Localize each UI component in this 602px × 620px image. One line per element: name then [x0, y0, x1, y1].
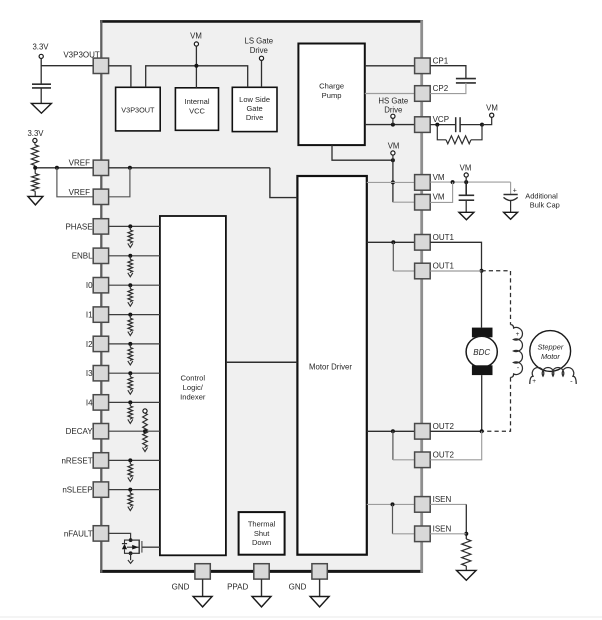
svg-text:BDC: BDC — [473, 348, 490, 357]
wire I1 to control logic — [109, 314, 160, 316]
pin OUT2 (upper) — [415, 422, 455, 439]
VCP external resistor R3 — [437, 125, 482, 144]
svg-text:ISEN: ISEN — [433, 524, 452, 533]
svg-text:I3: I3 — [86, 369, 93, 378]
wire I0 to control logic — [109, 284, 160, 286]
svg-text:Internal: Internal — [184, 97, 209, 106]
pin GND (bottom) — [172, 564, 211, 592]
pin nSLEEP — [62, 482, 108, 497]
svg-text:V3P3OUT: V3P3OUT — [121, 105, 155, 114]
pin OUT2 (lower) — [415, 450, 455, 467]
pin nRESET — [61, 453, 108, 468]
wire BDC motor to OUT2 node — [481, 375, 483, 431]
VCP external capacitor C3 — [430, 117, 484, 132]
wire OUT1 node to BDC motor — [481, 271, 483, 328]
svg-text:Logic/: Logic/ — [183, 383, 204, 392]
flying capacitor C2 between CP1 and CP2 — [430, 66, 476, 94]
wire VM terminal stem — [392, 155, 394, 160]
wire control-logic to motor-driver bus — [226, 361, 298, 363]
faint page rule at bottom — [0, 616, 602, 618]
block V3P3OUT regulator — [116, 87, 161, 131]
terminal VM (top, to Internal VCC) — [190, 32, 202, 47]
pin I1 — [86, 307, 109, 322]
svg-text:Charge: Charge — [319, 82, 344, 91]
wire HS Gate Drive tap — [392, 118, 394, 124]
svg-text:OUT1: OUT1 — [433, 262, 455, 271]
pin GND (bottom) — [289, 564, 328, 592]
wire motor driver to OUT2 pins — [367, 429, 415, 460]
svg-text:3.3V: 3.3V — [27, 129, 44, 138]
ground below C1 — [31, 103, 51, 113]
pulldown resistor on I1 — [128, 313, 133, 336]
wire nFAULT to open-drain FET — [109, 533, 131, 540]
pin OUT1 (lower) — [415, 262, 455, 279]
wire VM to Internal VCC — [194, 46, 198, 88]
pulldown resistor on ENBL — [128, 254, 133, 277]
ground below C4 — [459, 212, 474, 220]
ground at FET source — [128, 553, 133, 563]
terminal VM at VCP network — [482, 104, 498, 125]
svg-text:OUT2: OUT2 — [433, 422, 455, 431]
pin VCP — [415, 115, 449, 132]
wire DECAY to control logic — [109, 430, 160, 432]
resistor R4 current sense — [462, 539, 471, 570]
svg-text:OUT2: OUT2 — [433, 450, 455, 459]
pin I2 — [86, 336, 109, 351]
dashed wire stepper winding to OUT2 node — [482, 377, 511, 431]
block Low Side Gate Drive — [232, 87, 277, 131]
svg-text:VCC: VCC — [189, 106, 205, 115]
svg-text:Drive: Drive — [246, 113, 264, 122]
svg-text:Drive: Drive — [250, 46, 268, 55]
wire motor driver to OUT1 pins — [367, 240, 415, 271]
wire PHASE to control logic — [109, 225, 160, 227]
svg-text:GND: GND — [289, 583, 307, 592]
terminal 3.3V (top left) — [32, 42, 49, 58]
ground below divider — [28, 196, 43, 205]
wire VREF net to Motor Driver — [109, 166, 298, 198]
wire I4 to control logic — [109, 401, 160, 403]
svg-text:VREF: VREF — [69, 159, 90, 168]
pulldown resistor on PHASE — [128, 224, 133, 247]
svg-text:VREF: VREF — [69, 188, 90, 197]
wire charge pump to CP2 — [365, 93, 415, 95]
wire FET gate to control logic — [142, 546, 160, 548]
svg-text:ISEN: ISEN — [433, 495, 452, 504]
wire OUT2 pins to motor node — [430, 429, 484, 460]
svg-text:OUT1: OUT1 — [433, 233, 455, 242]
svg-text:VM: VM — [433, 173, 445, 182]
pin VREF (lower) — [69, 188, 109, 205]
svg-text:+: + — [516, 331, 520, 338]
pulldown resistor on I2 — [128, 342, 133, 365]
pin OUT1 (upper) — [415, 233, 455, 250]
svg-text:Bulk Cap: Bulk Cap — [530, 200, 560, 209]
svg-text:Control: Control — [181, 374, 206, 383]
svg-text:Pump: Pump — [322, 91, 342, 100]
pin ISEN (upper) — [415, 495, 452, 512]
wire motor driver to VM pin upper — [367, 181, 415, 183]
pin VM (lower) — [415, 193, 445, 210]
wire charge pump bottom to VM net — [332, 145, 395, 162]
pin VREF (upper) — [69, 159, 109, 176]
svg-text:+: + — [513, 187, 517, 194]
svg-text:ENBL: ENBL — [72, 252, 93, 261]
svg-text:Motor: Motor — [541, 352, 560, 361]
block Internal VCC — [175, 88, 218, 131]
pin VM (upper) — [415, 173, 445, 190]
wire internal V3P3 net to LS gate drive — [146, 66, 248, 88]
svg-text:LS Gate: LS Gate — [244, 37, 273, 46]
svg-text:DECAY: DECAY — [66, 427, 94, 436]
resistor R1 (divider top) — [31, 143, 38, 168]
svg-text:VM: VM — [190, 32, 202, 41]
wire charge pump to CP1 — [365, 65, 415, 67]
wire ISEN pins to sense resistor — [430, 504, 468, 539]
block Thermal Shut Down — [239, 512, 285, 555]
svg-text:nRESET: nRESET — [61, 456, 92, 465]
capacitor C4 VM decoupling — [459, 182, 475, 212]
pin I4 — [86, 395, 109, 410]
pulldown resistor on nSLEEP — [128, 488, 133, 511]
svg-text:Down: Down — [252, 538, 271, 547]
ground below C5 — [504, 212, 518, 219]
pin CP1 — [415, 56, 449, 73]
pin ENBL — [72, 248, 109, 263]
ground below sense resistor — [457, 570, 477, 580]
svg-text:Drive: Drive — [384, 106, 402, 115]
terminal VM (external bulk) — [460, 163, 472, 177]
wire VM pins to bulk capacitors — [430, 177, 510, 202]
svg-text:VCP: VCP — [433, 115, 449, 124]
wire nRESET to control logic — [109, 459, 160, 461]
wire VM vertical to VM pins — [391, 160, 395, 202]
pulldown resistor on nRESET — [128, 458, 133, 481]
svg-text:HS Gate: HS Gate — [378, 96, 408, 105]
terminal VM (internal, motor supply) — [388, 141, 400, 155]
svg-text:Indexer: Indexer — [180, 393, 206, 402]
pin I0 — [86, 278, 109, 293]
wire OUT1 to motor — [430, 242, 483, 272]
svg-text:I4: I4 — [86, 398, 93, 407]
svg-text:Shut: Shut — [254, 529, 270, 538]
wire nSLEEP to control logic — [109, 489, 160, 491]
svg-text:Motor Driver: Motor Driver — [309, 362, 352, 371]
svg-text:GND: GND — [172, 583, 190, 592]
terminal LS Gate Drive — [244, 37, 273, 61]
wire I3 to control logic — [109, 372, 160, 374]
motor M1 BDC — [466, 328, 497, 375]
svg-text:I0: I0 — [86, 281, 93, 290]
svg-text:CP1: CP1 — [433, 56, 449, 65]
resistor DECAY pull-down — [143, 429, 148, 451]
resistor R2 (divider bottom) — [32, 168, 39, 197]
wire V3P3OUT pin to regulator block — [109, 66, 131, 88]
block Charge Pump — [298, 44, 364, 146]
pulldown resistor on I4 — [128, 400, 133, 423]
inductor stepper winding (horizontal) — [530, 367, 576, 385]
wire divider to VREF pins — [33, 166, 93, 197]
pin PPAD (bottom) — [227, 564, 269, 592]
ground below GND — [310, 579, 329, 607]
label Additional Bulk Cap — [525, 191, 560, 209]
svg-text:VM: VM — [486, 104, 498, 113]
svg-text:VM: VM — [460, 163, 472, 172]
IC body U1 (device outline) — [100, 20, 423, 572]
svg-text:CP2: CP2 — [433, 84, 449, 93]
svg-text:VM: VM — [388, 141, 400, 150]
wire charge pump to VCP — [365, 123, 415, 127]
block Motor Driver — [297, 176, 366, 555]
pin DECAY — [66, 424, 109, 439]
pin ISEN (lower) — [415, 524, 452, 541]
svg-text:nFAULT: nFAULT — [64, 529, 93, 538]
inductor stepper winding (vertical) — [511, 325, 523, 378]
svg-text:+: + — [532, 378, 536, 385]
capacitor C1 on V3P3OUT — [32, 66, 51, 104]
terminal (tri-level) above DECAY resistor — [143, 409, 147, 413]
pin nFAULT — [64, 526, 109, 541]
motor M2 stepper motor — [530, 331, 571, 372]
svg-text:Gate: Gate — [246, 104, 262, 113]
svg-text:VM: VM — [433, 193, 445, 202]
pin CP2 — [415, 84, 449, 101]
pin V3P3OUT — [63, 51, 108, 74]
svg-text:nSLEEP: nSLEEP — [62, 486, 92, 495]
svg-text:PPAD: PPAD — [227, 583, 248, 592]
wire VM net to VM pin lower — [393, 201, 415, 203]
ground below PPAD — [252, 579, 271, 607]
terminal HS Gate Drive — [378, 96, 408, 118]
wire I2 to control logic — [109, 343, 160, 345]
wire ENBL to control logic — [109, 255, 160, 257]
pulldown resistor on I3 — [128, 371, 133, 394]
svg-text:Stepper: Stepper — [537, 343, 563, 352]
resistor DECAY pull-up — [143, 413, 148, 431]
svg-text:Additional: Additional — [525, 191, 558, 200]
wire motor driver to ISEN pins — [367, 502, 415, 533]
dashed wire OUT1 to stepper winding — [482, 271, 511, 325]
svg-text:3.3V: 3.3V — [32, 42, 49, 51]
capacitor C5 additional bulk cap (polarized) — [504, 182, 518, 212]
block Control Logic / Indexer — [160, 216, 226, 555]
svg-text:PHASE: PHASE — [65, 222, 92, 231]
transistor Q1 open-drain nFAULT output — [122, 538, 142, 555]
terminal 3.3V (VREF divider) — [27, 129, 44, 143]
pulldown resistor on I0 — [128, 283, 133, 306]
wire 3.3V to V3P3OUT pin — [41, 59, 93, 66]
pin I3 — [86, 366, 109, 381]
wire LS Gate Drive terminal to block — [261, 60, 263, 87]
svg-text:Thermal: Thermal — [248, 520, 276, 529]
ground below GND — [193, 579, 212, 607]
pin PHASE — [65, 219, 108, 234]
svg-text:I1: I1 — [86, 311, 93, 320]
svg-text:I2: I2 — [86, 340, 93, 349]
svg-text:Low Side: Low Side — [239, 95, 270, 104]
